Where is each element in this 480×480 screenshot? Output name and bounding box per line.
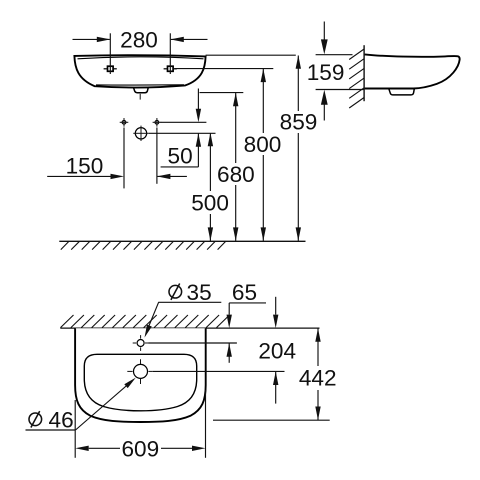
- basin top edge extension line (859/159): [206, 54, 353, 57]
- mounting hole left (front view): [104, 66, 117, 71]
- tap hole (plan view): [133, 335, 149, 351]
- svg-text:680: 680: [217, 162, 255, 187]
- dimension 859: [280, 55, 318, 241]
- basin front-view inner bottom line: [96, 84, 184, 86]
- wall hatching (plan view): [61, 315, 230, 328]
- reference line at mounting-hole height (800): [174, 68, 273, 70]
- svg-text:204: 204: [258, 338, 296, 363]
- wall line (plan view): [60, 327, 319, 329]
- main hole reference line: [153, 370, 285, 372]
- dimension 150 supply cross spacing: [47, 128, 187, 189]
- dimension 204 wall to main hole: [258, 297, 296, 404]
- basin front-view outer outline: [74, 55, 205, 87]
- dimension 800: [244, 69, 282, 241]
- spout reference circle: [133, 126, 148, 141]
- leader and label diameter 35 (tap hole): [145, 302, 222, 337]
- basin plan-view outer outline: [75, 328, 206, 422]
- svg-text:50: 50: [168, 143, 193, 168]
- svg-text:500: 500: [191, 190, 229, 215]
- leader and label diameter 46 (main hole): [26, 378, 136, 430]
- svg-text:35: 35: [187, 280, 212, 305]
- wall line (side view): [363, 45, 365, 101]
- dimension 50 cross-to-spout vertical: [161, 89, 202, 169]
- drain centerline stub: [139, 94, 141, 100]
- svg-text:46: 46: [49, 408, 74, 433]
- svg-text:442: 442: [299, 365, 337, 390]
- mounting hole right (front view): [164, 66, 177, 71]
- basin bottom extension line (159): [316, 89, 364, 91]
- reference line at spout height (500): [149, 132, 216, 134]
- dimension 609 basin width: [75, 390, 205, 461]
- basin front-view inner rim line: [78, 57, 204, 59]
- svg-text:609: 609: [121, 436, 159, 461]
- svg-text:159: 159: [307, 60, 345, 85]
- reference line at supply-cross height: [161, 121, 207, 123]
- tap hole reference line: [149, 342, 237, 344]
- basin plan-view inner outline: [84, 354, 196, 411]
- drain boss (front view): [134, 88, 149, 93]
- dimension 159: [307, 22, 345, 121]
- drain boss (side view): [389, 89, 415, 95]
- ground line (front elevation): [59, 240, 305, 242]
- dimension 280 between mounting holes: [73, 27, 208, 74]
- ground hatching: [61, 241, 226, 249]
- svg-text:150: 150: [66, 154, 104, 179]
- dimension 442 wall to front edge: [299, 328, 337, 420]
- dimension 500: [191, 133, 229, 241]
- svg-text:65: 65: [232, 280, 257, 305]
- dimension 680: [217, 93, 255, 241]
- basin side-view profile: [365, 54, 460, 88]
- supply connection cross right: [153, 118, 162, 127]
- svg-text:280: 280: [120, 27, 158, 52]
- main hole (plan view): [127, 359, 152, 384]
- reference line at drain-boss bottom (680): [200, 92, 244, 94]
- svg-text:859: 859: [280, 110, 318, 135]
- dimension 65 wall to tap hole: [227, 280, 267, 363]
- svg-text:800: 800: [244, 132, 282, 157]
- wall hatching (side view): [349, 49, 364, 108]
- front edge reference line (442): [213, 419, 330, 421]
- supply connection cross left: [120, 118, 129, 127]
